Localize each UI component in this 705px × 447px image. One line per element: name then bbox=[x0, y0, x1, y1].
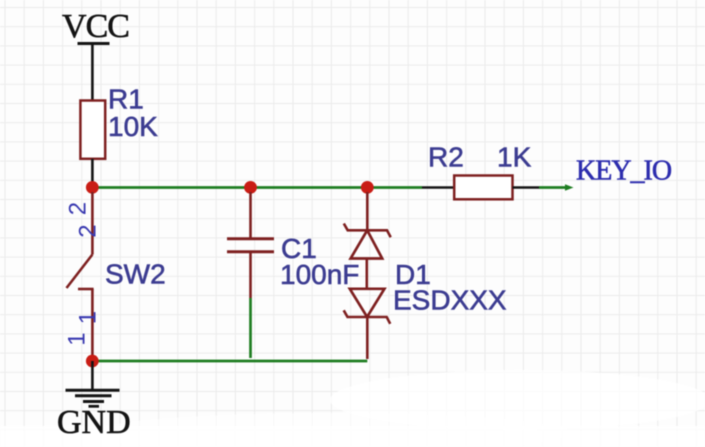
wire top rail to R2 bbox=[422, 186, 455, 189]
svg-text:100nF: 100nF bbox=[280, 259, 359, 290]
pin number 2 (SW2 top) bbox=[65, 202, 102, 238]
wire R1 to node A bbox=[91, 159, 94, 183]
svg-text:KEY_IO: KEY_IO bbox=[576, 156, 672, 187]
pin number 1 (SW2 bottom) bbox=[64, 311, 102, 346]
svg-text:VCC: VCC bbox=[62, 8, 129, 45]
wire C1 to bottom rail bbox=[249, 298, 252, 358]
svg-text:R2: R2 bbox=[428, 142, 464, 173]
svg-text:SW2: SW2 bbox=[105, 258, 166, 289]
svg-text:R1: R1 bbox=[108, 84, 144, 115]
TVS diode D1 bbox=[344, 192, 391, 359]
svg-text:2: 2 bbox=[75, 224, 102, 237]
wire bottom rail bbox=[92, 360, 367, 363]
svg-text:ESDXXX: ESDXXX bbox=[393, 285, 507, 316]
wire node A to R2 (top rail) bbox=[92, 186, 422, 189]
svg-text:10K: 10K bbox=[108, 111, 158, 142]
wire R2 to port KEY_IO bbox=[539, 184, 574, 190]
junction node GND bbox=[86, 355, 99, 368]
svg-text:1K: 1K bbox=[497, 142, 532, 173]
wire VCC to R1 bbox=[91, 44, 94, 102]
svg-text:1: 1 bbox=[75, 311, 102, 324]
resistor R2 bbox=[454, 176, 512, 200]
power port VCC bbox=[62, 8, 129, 45]
wire R2 right bbox=[513, 186, 540, 189]
svg-text:1: 1 bbox=[64, 332, 91, 345]
junction node at C1 bbox=[244, 181, 257, 194]
capacitor C1 bbox=[227, 192, 274, 298]
svg-text:2: 2 bbox=[65, 202, 92, 215]
ground symbol bbox=[66, 361, 120, 406]
switch SW2 bbox=[67, 192, 94, 357]
svg-text:GND: GND bbox=[57, 404, 131, 441]
junction node A bbox=[86, 181, 99, 194]
resistor R1 bbox=[80, 101, 105, 159]
junction node at D1 bbox=[361, 181, 374, 194]
